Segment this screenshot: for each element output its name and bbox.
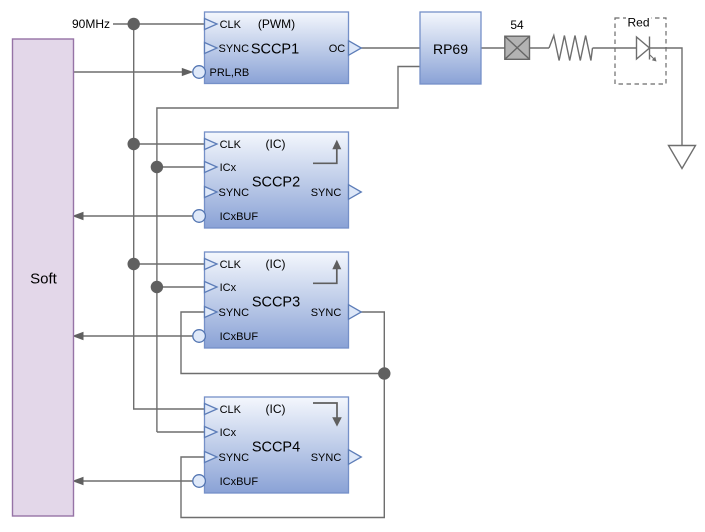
- svg-text:SYNC: SYNC: [311, 307, 342, 319]
- svg-text:ICxBUF: ICxBUF: [220, 476, 259, 488]
- svg-text:SYNC: SYNC: [311, 187, 342, 199]
- svg-text:ICxBUF: ICxBUF: [220, 211, 259, 223]
- svg-text:SCCP1: SCCP1: [251, 41, 299, 57]
- svg-text:RP69: RP69: [433, 41, 468, 57]
- svg-text:Red: Red: [627, 15, 649, 29]
- svg-text:SCCP3: SCCP3: [252, 294, 300, 310]
- svg-text:(PWM): (PWM): [258, 17, 295, 31]
- svg-text:SYNC: SYNC: [219, 452, 250, 464]
- svg-text:54: 54: [510, 18, 524, 32]
- svg-text:SCCP2: SCCP2: [252, 174, 300, 190]
- svg-text:(IC): (IC): [266, 137, 286, 151]
- svg-text:ICx: ICx: [220, 427, 237, 439]
- svg-text:(IC): (IC): [266, 257, 286, 271]
- svg-text:ICx: ICx: [220, 162, 237, 174]
- svg-text:CLK: CLK: [220, 404, 242, 416]
- svg-text:(IC): (IC): [266, 402, 286, 416]
- svg-text:SYNC: SYNC: [219, 307, 250, 319]
- svg-text:ICxBUF: ICxBUF: [220, 331, 259, 343]
- svg-text:Soft: Soft: [30, 271, 58, 288]
- svg-text:OC: OC: [329, 43, 346, 55]
- svg-text:CLK: CLK: [220, 259, 242, 271]
- svg-text:CLK: CLK: [220, 19, 242, 31]
- svg-text:PRL,RB: PRL,RB: [210, 67, 250, 79]
- svg-text:ICx: ICx: [220, 282, 237, 294]
- svg-text:SYNC: SYNC: [219, 43, 250, 55]
- svg-text:SCCP4: SCCP4: [252, 439, 300, 455]
- svg-text:90MHz: 90MHz: [72, 17, 110, 31]
- svg-text:SYNC: SYNC: [311, 452, 342, 464]
- svg-text:CLK: CLK: [220, 139, 242, 151]
- svg-text:SYNC: SYNC: [219, 187, 250, 199]
